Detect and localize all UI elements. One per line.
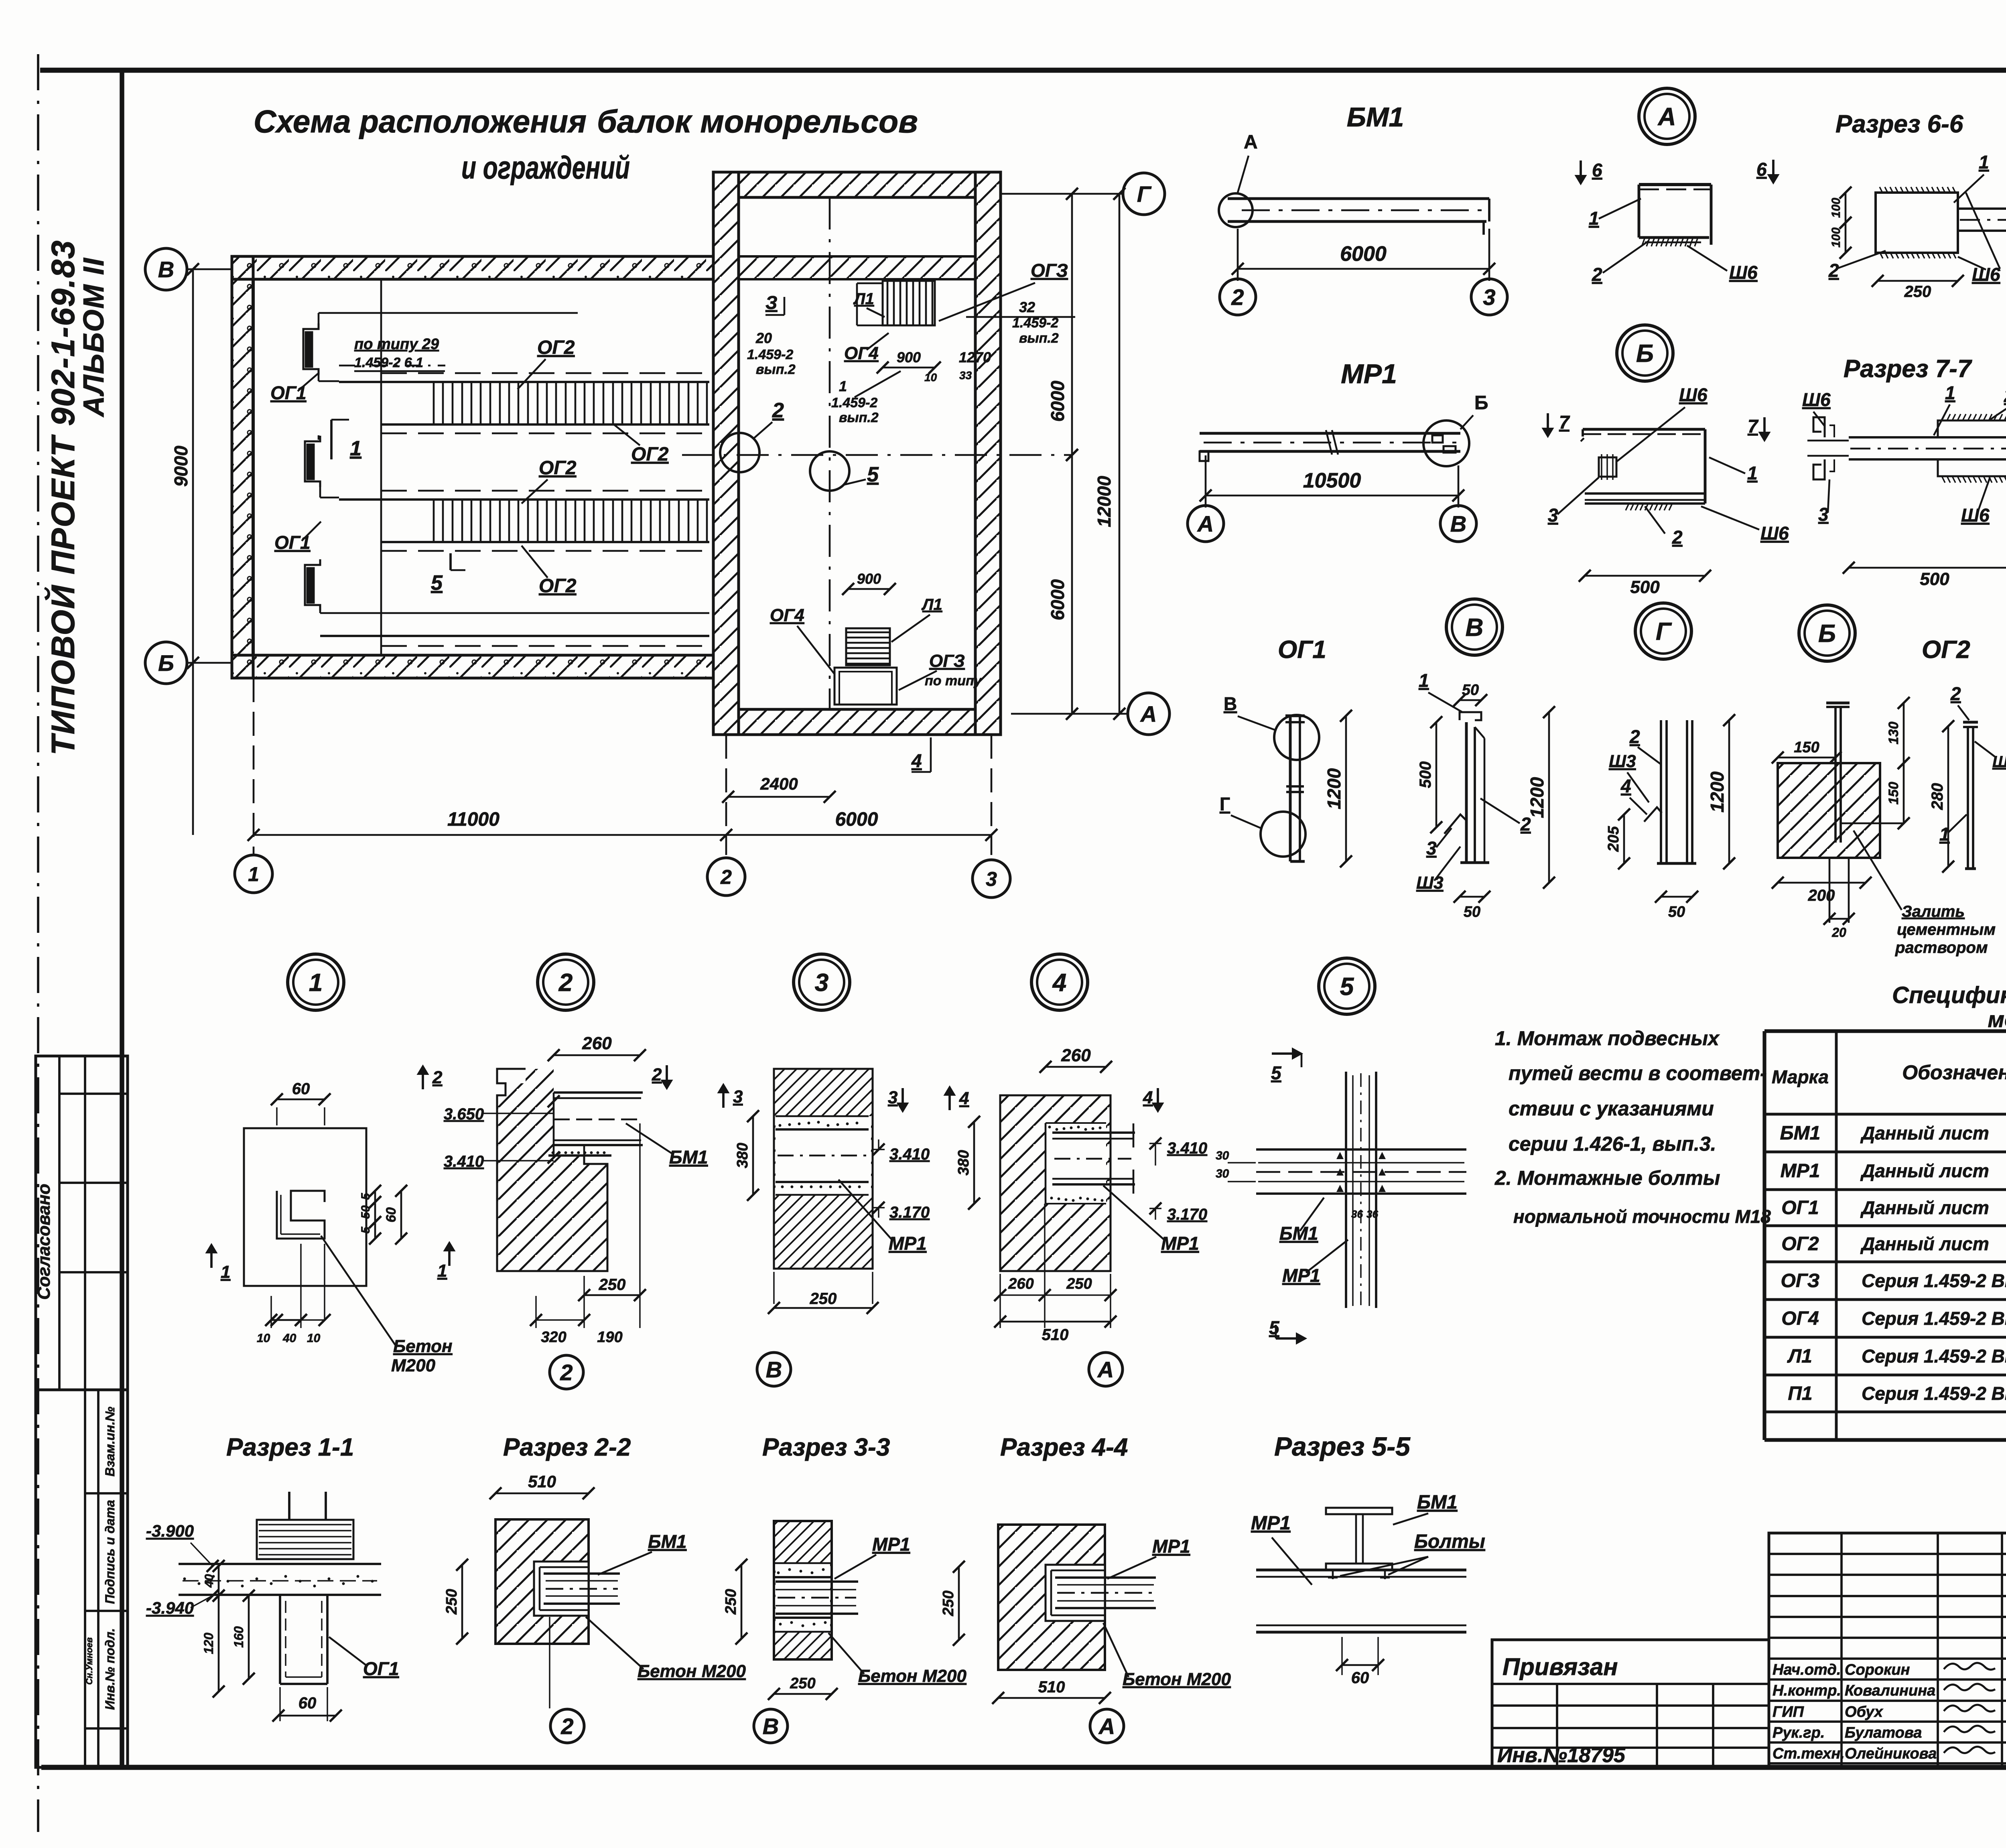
svg-text:2: 2 xyxy=(1231,284,1244,310)
svg-text:Б: Б xyxy=(1636,340,1654,368)
svg-text:130: 130 xyxy=(1886,722,1901,745)
svg-text:вып.2: вып.2 xyxy=(756,362,796,377)
svg-text:30: 30 xyxy=(1216,1149,1229,1162)
svg-text:1.459-2: 1.459-2 xyxy=(831,395,877,410)
svg-text:5: 5 xyxy=(359,1226,372,1233)
svg-text:6000: 6000 xyxy=(835,809,878,830)
svg-text:ОГ4: ОГ4 xyxy=(1781,1308,1819,1329)
svg-text:Г: Г xyxy=(1137,181,1152,207)
svg-text:3.410: 3.410 xyxy=(889,1145,930,1163)
svg-text:1: 1 xyxy=(309,969,323,997)
svg-text:вып.2: вып.2 xyxy=(839,410,879,425)
svg-text:Разрез 6-6: Разрез 6-6 xyxy=(1835,110,1963,138)
svg-text:МР1: МР1 xyxy=(872,1534,910,1555)
svg-text:1: 1 xyxy=(1419,670,1429,691)
svg-text:1200: 1200 xyxy=(1527,777,1547,818)
svg-text:5: 5 xyxy=(1269,1317,1280,1338)
svg-text:балок монорельсов: балок монорельсов xyxy=(597,104,918,139)
svg-text:2: 2 xyxy=(1672,527,1683,548)
svg-text:Болты: Болты xyxy=(1414,1531,1485,1552)
svg-text:путей вести в соответ-: путей вести в соответ- xyxy=(1509,1062,1767,1084)
svg-text:40: 40 xyxy=(203,1574,216,1588)
svg-text:2400: 2400 xyxy=(760,774,798,793)
svg-text:3: 3 xyxy=(1548,505,1558,526)
svg-text:монорельсов и ограждений: монорельсов и ограждений xyxy=(1988,1007,2006,1032)
svg-text:6000: 6000 xyxy=(1047,579,1068,620)
svg-text:Марка: Марка xyxy=(1772,1066,1829,1087)
svg-text:Г: Г xyxy=(1656,618,1672,646)
svg-text:Разрез 2-2: Разрез 2-2 xyxy=(503,1434,631,1461)
svg-text:9000: 9000 xyxy=(171,445,191,487)
svg-text:250: 250 xyxy=(723,1589,739,1614)
svg-text:4: 4 xyxy=(911,750,922,771)
svg-text:900: 900 xyxy=(857,571,881,587)
svg-text:Бетон М200: Бетон М200 xyxy=(638,1661,746,1681)
svg-text:ОГЗ: ОГЗ xyxy=(1031,260,1068,281)
svg-text:Данный лист: Данный лист xyxy=(1860,1160,1989,1181)
svg-text:120: 120 xyxy=(201,1633,216,1654)
svg-text:Ш3: Ш3 xyxy=(1609,751,1636,771)
svg-text:260: 260 xyxy=(1061,1046,1091,1065)
svg-text:250: 250 xyxy=(940,1590,957,1616)
svg-text:раствором: раствором xyxy=(1895,939,1988,956)
svg-text:1. Монтаж подвесных: 1. Монтаж подвесных xyxy=(1495,1027,1720,1050)
svg-text:ОГ2: ОГ2 xyxy=(1781,1233,1819,1255)
svg-text:60: 60 xyxy=(384,1207,399,1223)
svg-text:Схема расположения: Схема расположения xyxy=(254,104,587,139)
svg-text:3: 3 xyxy=(1483,284,1495,310)
svg-text:Разрез 1-1: Разрез 1-1 xyxy=(226,1434,354,1461)
svg-text:320: 320 xyxy=(541,1329,566,1346)
svg-text:5: 5 xyxy=(359,1192,372,1200)
svg-text:МР1: МР1 xyxy=(1152,1536,1190,1557)
svg-text:Серия 1.459-2 Вып.2: Серия 1.459-2 Вып.2 xyxy=(1862,1383,2006,1404)
svg-text:3: 3 xyxy=(986,868,997,890)
svg-text:205: 205 xyxy=(1605,826,1622,852)
svg-text:1: 1 xyxy=(248,863,259,885)
svg-text:1: 1 xyxy=(1747,463,1758,483)
svg-text:В: В xyxy=(766,1357,782,1382)
svg-text:ОГЗ: ОГЗ xyxy=(929,651,965,671)
svg-text:цементным: цементным xyxy=(1897,921,1996,938)
svg-text:В: В xyxy=(1450,511,1466,536)
svg-text:А: А xyxy=(1197,511,1214,536)
svg-text:2: 2 xyxy=(560,1714,573,1739)
svg-text:МР1: МР1 xyxy=(1161,1233,1199,1254)
svg-text:50: 50 xyxy=(1668,904,1685,920)
svg-text:Б: Б xyxy=(158,650,174,676)
svg-text:2: 2 xyxy=(432,1068,443,1087)
svg-text:Бетон: Бетон xyxy=(393,1336,453,1356)
svg-text:ОГ1: ОГ1 xyxy=(270,382,307,403)
svg-text:МР1: МР1 xyxy=(1251,1513,1291,1534)
svg-text:280: 280 xyxy=(1929,783,1946,810)
svg-text:ТИПОВОЙ ПРОЕКТ 902-1-69.83: ТИПОВОЙ ПРОЕКТ 902-1-69.83 xyxy=(44,240,81,755)
svg-text:Разрез 4-4: Разрез 4-4 xyxy=(1000,1434,1128,1461)
svg-text:3.170: 3.170 xyxy=(1167,1206,1207,1223)
svg-text:БМ1: БМ1 xyxy=(648,1531,686,1552)
svg-text:1: 1 xyxy=(350,437,361,460)
svg-text:Серия 1.459-2 Вып.2: Серия 1.459-2 Вып.2 xyxy=(1862,1346,2006,1367)
svg-text:2: 2 xyxy=(1629,726,1640,747)
svg-text:1: 1 xyxy=(221,1262,230,1282)
svg-text:Булатова: Булатова xyxy=(1845,1724,1922,1741)
svg-text:260: 260 xyxy=(582,1034,612,1053)
svg-text:32: 32 xyxy=(1019,299,1035,315)
svg-text:Нач.отд.: Нач.отд. xyxy=(1773,1661,1841,1678)
svg-text:4: 4 xyxy=(959,1088,969,1108)
svg-text:Б: Б xyxy=(1474,392,1488,414)
svg-text:250: 250 xyxy=(790,1675,815,1692)
svg-text:900: 900 xyxy=(897,349,921,366)
svg-text:2: 2 xyxy=(720,866,732,888)
svg-text:150: 150 xyxy=(1794,739,1819,756)
svg-text:380: 380 xyxy=(734,1143,751,1168)
svg-text:510: 510 xyxy=(528,1472,556,1491)
svg-text:1: 1 xyxy=(437,1261,447,1281)
svg-text:4: 4 xyxy=(1143,1088,1153,1107)
svg-text:Н.контр.: Н.контр. xyxy=(1773,1682,1841,1699)
svg-text:Ст.техн.: Ст.техн. xyxy=(1773,1745,1845,1762)
svg-text:Ш6: Ш6 xyxy=(1961,505,1990,526)
svg-text:3: 3 xyxy=(815,969,828,997)
svg-text:2: 2 xyxy=(1828,260,1839,281)
svg-text:-3.940: -3.940 xyxy=(146,1598,194,1617)
svg-text:А: А xyxy=(1140,701,1157,727)
svg-text:Сорокин: Сорокин xyxy=(1845,1661,1910,1678)
svg-text:Ш6: Ш6 xyxy=(1760,523,1789,544)
svg-text:Бетон М200: Бетон М200 xyxy=(1123,1669,1231,1689)
svg-text:250: 250 xyxy=(1066,1275,1092,1292)
svg-text:Ш6: Ш6 xyxy=(1729,262,1758,283)
svg-text:П1: П1 xyxy=(1788,1383,1812,1404)
svg-text:510: 510 xyxy=(1038,1678,1065,1696)
svg-text:ОГ1: ОГ1 xyxy=(1781,1197,1819,1218)
svg-text:ОГ2: ОГ2 xyxy=(539,575,577,597)
svg-text:6000: 6000 xyxy=(1047,380,1068,422)
svg-text:5: 5 xyxy=(867,463,879,486)
svg-text:5: 5 xyxy=(1340,973,1354,1001)
svg-text:А: А xyxy=(1657,103,1676,131)
svg-text:ОГ2: ОГ2 xyxy=(539,457,577,479)
svg-text:Спецификация к схеме расположе: Спецификация к схеме расположения балок, xyxy=(1892,982,2006,1008)
svg-text:2: 2 xyxy=(1950,683,1961,704)
svg-text:3: 3 xyxy=(1426,838,1437,859)
svg-text:Данный лист: Данный лист xyxy=(1860,1123,1989,1143)
svg-text:60: 60 xyxy=(1351,1669,1369,1687)
svg-text:Инв.№ подл.: Инв.№ подл. xyxy=(103,1628,117,1710)
svg-text:нормальной точности М18: нормальной точности М18 xyxy=(1513,1206,1771,1227)
svg-text:4: 4 xyxy=(1620,776,1631,796)
svg-text:В: В xyxy=(763,1714,779,1739)
svg-text:5: 5 xyxy=(431,571,443,595)
svg-text:200: 200 xyxy=(1808,887,1835,904)
svg-text:60: 60 xyxy=(298,1694,317,1712)
svg-text:40: 40 xyxy=(282,1332,296,1345)
svg-text:1: 1 xyxy=(1979,152,1989,173)
svg-text:100: 100 xyxy=(1829,227,1843,248)
svg-text:11000: 11000 xyxy=(447,809,499,830)
svg-text:250: 250 xyxy=(599,1276,626,1294)
svg-text:ОГ2: ОГ2 xyxy=(537,337,575,358)
svg-text:Ш6: Ш6 xyxy=(1972,264,2000,285)
svg-text:20: 20 xyxy=(755,330,772,346)
svg-text:Инв.№18795: Инв.№18795 xyxy=(1497,1744,1626,1767)
svg-text:Данный лист: Данный лист xyxy=(1860,1233,1989,1254)
svg-text:2: 2 xyxy=(560,1360,573,1385)
svg-text:Разрез 3-3: Разрез 3-3 xyxy=(762,1434,890,1461)
svg-text:36: 36 xyxy=(1366,1208,1378,1220)
svg-text:А: А xyxy=(1097,1357,1114,1382)
svg-text:2: 2 xyxy=(1592,264,1602,285)
svg-text:Обозначение: Обозначение xyxy=(1902,1061,2006,1084)
svg-text:3.650: 3.650 xyxy=(444,1105,484,1123)
svg-text:10: 10 xyxy=(924,371,937,384)
svg-text:БМ1: БМ1 xyxy=(669,1147,708,1168)
svg-text:Взам.ин.№: Взам.ин.№ xyxy=(103,1407,117,1477)
svg-text:1: 1 xyxy=(1945,382,1955,403)
svg-text:1.459-2: 1.459-2 xyxy=(747,347,793,362)
svg-text:Ш3: Ш3 xyxy=(1416,873,1444,893)
svg-text:2: 2 xyxy=(558,969,573,997)
svg-text:7: 7 xyxy=(1748,416,1759,437)
svg-text:2: 2 xyxy=(652,1065,662,1084)
svg-text:ОГ4: ОГ4 xyxy=(770,605,804,625)
svg-text:500: 500 xyxy=(1920,569,1949,589)
svg-text:1200: 1200 xyxy=(1707,771,1728,812)
svg-text:Данный лист: Данный лист xyxy=(1860,1197,1989,1218)
svg-text:Л1: Л1 xyxy=(921,596,942,613)
svg-text:Залить: Залить xyxy=(1902,903,1965,920)
svg-text:МР1: МР1 xyxy=(1781,1160,1820,1182)
svg-text:33: 33 xyxy=(959,369,972,382)
svg-text:А: А xyxy=(1098,1714,1115,1739)
svg-text:1: 1 xyxy=(1589,208,1599,229)
svg-text:12000: 12000 xyxy=(1094,476,1115,527)
svg-text:160: 160 xyxy=(231,1626,246,1648)
svg-text:В: В xyxy=(158,257,174,282)
svg-text:Ковалинина: Ковалинина xyxy=(1845,1682,1935,1699)
svg-text:Ш6: Ш6 xyxy=(1802,389,1831,410)
svg-text:3.410: 3.410 xyxy=(444,1153,484,1170)
svg-text:10500: 10500 xyxy=(1303,469,1361,492)
svg-text:МР1: МР1 xyxy=(889,1233,927,1254)
svg-text:Л1: Л1 xyxy=(853,290,874,308)
svg-text:250: 250 xyxy=(810,1290,837,1308)
svg-text:2: 2 xyxy=(772,399,784,422)
svg-text:Олейникова: Олейникова xyxy=(1845,1745,1937,1762)
svg-text:1.459-2 6.1: 1.459-2 6.1 xyxy=(354,355,423,370)
svg-text:Г: Г xyxy=(1220,794,1230,814)
svg-text:ОГ1: ОГ1 xyxy=(1278,636,1326,664)
svg-text:ГИП: ГИП xyxy=(1773,1704,1804,1720)
svg-text:ОГ2: ОГ2 xyxy=(1922,636,1970,664)
svg-text:-3.900: -3.900 xyxy=(146,1521,194,1540)
svg-text:50: 50 xyxy=(359,1205,372,1219)
svg-text:Привязан: Привязан xyxy=(1502,1653,1618,1680)
svg-text:20: 20 xyxy=(1831,925,1846,940)
svg-text:Б: Б xyxy=(1818,620,1836,648)
svg-text:БМ1: БМ1 xyxy=(1347,102,1404,132)
svg-text:5: 5 xyxy=(1271,1062,1282,1083)
svg-text:по типу: по типу xyxy=(925,673,983,688)
svg-text:Ш6: Ш6 xyxy=(1679,384,1708,405)
svg-text:60: 60 xyxy=(292,1080,310,1098)
svg-text:ствии с указаниями: ствии с указаниями xyxy=(1509,1097,1714,1120)
svg-text:2: 2 xyxy=(2004,385,2006,406)
svg-text:250: 250 xyxy=(1904,283,1931,301)
svg-text:Л1: Л1 xyxy=(1787,1346,1812,1367)
svg-text:МР1: МР1 xyxy=(1341,359,1397,389)
svg-text:М200: М200 xyxy=(391,1356,436,1375)
svg-text:2: 2 xyxy=(1520,814,1531,835)
svg-text:50: 50 xyxy=(1462,682,1479,699)
svg-text:Обух: Обух xyxy=(1845,1704,1884,1720)
svg-text:Серия 1.459-2 Вып.2: Серия 1.459-2 Вып.2 xyxy=(1862,1308,2006,1329)
svg-text:МР1: МР1 xyxy=(1282,1265,1320,1286)
svg-text:и ограждений: и ограждений xyxy=(461,150,630,185)
svg-text:Рук.гр.: Рук.гр. xyxy=(1773,1724,1825,1741)
svg-text:В: В xyxy=(1466,614,1484,642)
svg-text:1200: 1200 xyxy=(1324,768,1344,809)
svg-text:500: 500 xyxy=(1630,577,1660,597)
svg-text:В: В xyxy=(1224,693,1237,714)
svg-text:АЛЬБОМ II: АЛЬБОМ II xyxy=(78,257,110,417)
svg-text:6: 6 xyxy=(1756,159,1767,180)
svg-text:30: 30 xyxy=(1216,1167,1229,1180)
svg-text:ОГ4: ОГ4 xyxy=(844,343,879,363)
svg-text:380: 380 xyxy=(955,1150,972,1175)
svg-text:Подпись и дата: Подпись и дата xyxy=(103,1500,117,1604)
svg-text:Разрез 5-5: Разрез 5-5 xyxy=(1274,1432,1411,1461)
svg-text:190: 190 xyxy=(597,1329,622,1346)
svg-text:вып.2: вып.2 xyxy=(1019,331,1059,346)
svg-text:4: 4 xyxy=(1052,969,1066,997)
svg-text:ОГЗ: ОГЗ xyxy=(1781,1270,1819,1292)
svg-text:10: 10 xyxy=(257,1332,270,1345)
svg-text:500: 500 xyxy=(1417,762,1434,788)
svg-text:Согласовано: Согласовано xyxy=(34,1184,54,1300)
svg-text:3.170: 3.170 xyxy=(889,1204,930,1221)
svg-text:по типу 29: по типу 29 xyxy=(354,336,439,353)
svg-text:3: 3 xyxy=(888,1088,897,1107)
svg-text:Серия 1.459-2 Вып.2: Серия 1.459-2 Вып.2 xyxy=(1862,1270,2006,1291)
svg-text:ОГ2: ОГ2 xyxy=(631,444,669,465)
svg-text:36: 36 xyxy=(1351,1208,1363,1220)
svg-text:БМ1: БМ1 xyxy=(1417,1492,1458,1513)
svg-text:БМ1: БМ1 xyxy=(1279,1223,1318,1244)
svg-text:серии 1.426-1, вып.3.: серии 1.426-1, вып.3. xyxy=(1509,1133,1716,1155)
svg-text:БМ1: БМ1 xyxy=(1780,1123,1821,1144)
svg-text:10: 10 xyxy=(307,1332,321,1345)
svg-text:150: 150 xyxy=(1886,782,1901,805)
svg-text:6: 6 xyxy=(1592,160,1602,181)
svg-text:2. Монтажные болты: 2. Монтажные болты xyxy=(1494,1167,1720,1189)
svg-text:3: 3 xyxy=(1818,504,1829,525)
svg-text:6000: 6000 xyxy=(1340,242,1387,266)
svg-text:250: 250 xyxy=(443,1589,460,1614)
svg-text:ОГ1: ОГ1 xyxy=(274,532,311,553)
svg-text:ОГ1: ОГ1 xyxy=(363,1658,399,1679)
svg-text:Бетон М200: Бетон М200 xyxy=(858,1666,966,1686)
svg-text:А: А xyxy=(1244,132,1258,153)
svg-text:3.410: 3.410 xyxy=(1167,1139,1207,1157)
svg-text:1270: 1270 xyxy=(959,349,991,366)
svg-text:260: 260 xyxy=(1008,1275,1033,1292)
svg-text:3: 3 xyxy=(733,1087,743,1107)
svg-text:50: 50 xyxy=(1464,904,1480,920)
svg-text:1: 1 xyxy=(839,378,847,394)
svg-text:Сн.Умноев: Сн.Умноев xyxy=(84,1637,94,1685)
svg-text:100: 100 xyxy=(1829,198,1843,218)
svg-text:Разрез 7-7: Разрез 7-7 xyxy=(1844,355,1972,383)
svg-text:7: 7 xyxy=(1559,412,1570,433)
svg-text:510: 510 xyxy=(1042,1326,1069,1344)
svg-text:З: З xyxy=(765,292,778,313)
